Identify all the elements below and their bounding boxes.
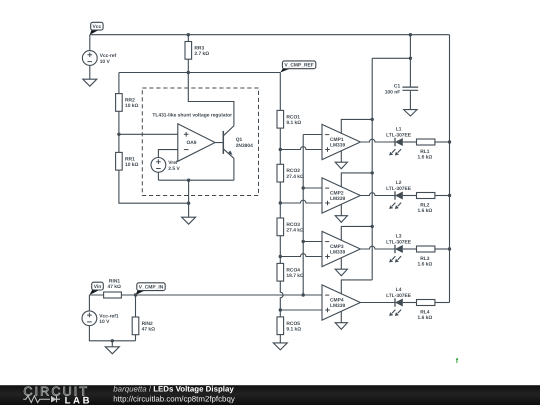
wire CMP4 V+ pin <box>341 280 372 294</box>
resistor RCO3 <box>277 218 304 236</box>
ground <box>335 269 347 276</box>
svg-text:RR1: RR1 <box>125 156 135 162</box>
op-amp CMP3 comparator <box>322 231 360 266</box>
ground <box>335 162 347 169</box>
wire RL2 to rail <box>435 195 450 197</box>
resistor RR1 <box>116 152 139 170</box>
resistor RIN1 <box>89 279 135 299</box>
svg-text:LM339: LM339 <box>330 250 346 256</box>
svg-text:L4: L4 <box>396 287 402 293</box>
svg-text:2N3904: 2N3904 <box>236 143 253 149</box>
svg-text:2.7 kΩ: 2.7 kΩ <box>194 51 209 57</box>
svg-text:9.1 kΩ: 9.1 kΩ <box>286 327 301 333</box>
svg-text:1.6 kΩ: 1.6 kΩ <box>417 315 432 321</box>
wire CMP4 output <box>360 302 395 304</box>
ground <box>335 216 347 223</box>
svg-text:V_CMP_IN: V_CMP_IN <box>139 284 164 290</box>
wire Q1 collector <box>188 73 234 126</box>
svg-text:RIN2: RIN2 <box>142 321 153 327</box>
ground <box>105 347 119 354</box>
LED L4 LTL-307EE <box>386 287 412 316</box>
svg-text:LTL-307EE: LTL-307EE <box>386 239 412 245</box>
resistor RR2 <box>116 94 139 112</box>
LED L3 LTL-307EE <box>386 234 412 263</box>
svg-text:L1: L1 <box>396 127 402 133</box>
svg-text:RL4: RL4 <box>420 310 430 316</box>
op-amp CMP2 comparator <box>322 178 360 213</box>
svg-text:LTL-307EE: LTL-307EE <box>386 293 412 299</box>
wire RL4 to rail <box>435 302 450 304</box>
resistor RR2 <box>118 73 120 153</box>
capacitor C1 <box>385 35 419 110</box>
wire tap2 to CMP2 + input <box>280 200 322 203</box>
ground <box>404 110 417 116</box>
wire RL1 to rail <box>435 141 450 143</box>
svg-text:C1: C1 <box>394 83 401 89</box>
LED L2 LTL-307EE <box>386 180 412 209</box>
ground <box>273 343 287 350</box>
svg-text:LM339: LM339 <box>330 303 346 309</box>
svg-text:CMP4: CMP4 <box>330 297 344 303</box>
ground <box>182 217 196 224</box>
svg-text:LM339: LM339 <box>330 143 346 149</box>
wire CMP1 V- pin <box>340 151 342 162</box>
wire CMP2 output <box>360 193 395 196</box>
wire Q1 emitter <box>233 158 235 180</box>
svg-text:RL3: RL3 <box>420 256 430 262</box>
resistor RL3 <box>417 246 435 268</box>
svg-text:Vref: Vref <box>168 160 178 166</box>
svg-text:L3: L3 <box>396 234 402 240</box>
wire CMP3 V+ pin <box>341 226 372 240</box>
node Vcc flag <box>90 22 103 34</box>
svg-text:OA9: OA9 <box>186 140 196 146</box>
wire V_CMP_REF horizontal <box>119 72 280 74</box>
wire LED to RL3 <box>403 248 417 250</box>
wire tap1 to CMP1 + input <box>280 147 322 150</box>
LED L1 LTL-307EE <box>386 127 412 156</box>
svg-text:27.4 kΩ: 27.4 kΩ <box>286 174 304 180</box>
svg-text:Vin: Vin <box>94 284 102 290</box>
wire V_CMP_IN horizontal <box>136 294 323 296</box>
resistor RCO4 <box>277 263 304 281</box>
voltage source Vref <box>151 158 180 173</box>
wire LED to RL2 <box>403 195 417 197</box>
wire chain with hop over V_CMP_IN <box>280 281 283 317</box>
svg-text:2.5 V: 2.5 V <box>168 166 180 172</box>
wire CMP3 V- pin <box>340 258 342 269</box>
svg-text:Vcc-ref: Vcc-ref <box>100 53 117 59</box>
svg-text:47 kΩ: 47 kΩ <box>107 284 121 290</box>
svg-text:RCO1: RCO1 <box>286 114 300 120</box>
svg-text:Vcc-ref1: Vcc-ref1 <box>99 314 119 320</box>
svg-text:100 nF: 100 nF <box>385 89 401 95</box>
TL431 dashed box <box>142 88 258 196</box>
svg-text:L2: L2 <box>396 180 402 186</box>
svg-text:TL431-like shunt voltage regul: TL431-like shunt voltage regulator <box>152 113 232 119</box>
svg-text:LM339: LM339 <box>330 196 346 202</box>
wire LED to RL1 <box>403 141 417 143</box>
wire CMP4 V- pin <box>340 311 342 323</box>
wire OA9 + input <box>119 133 178 135</box>
node V_CMP_REF flag <box>280 61 316 73</box>
op-amp CMP1 comparator <box>322 124 360 159</box>
ground <box>83 79 97 86</box>
svg-text:barquetta / LEDs Voltage Displ: barquetta / LEDs Voltage Display <box>113 384 234 393</box>
node V_CMP_IN flag <box>136 283 166 295</box>
resistor RIN2 <box>132 317 155 335</box>
wire to input ground <box>111 341 113 347</box>
svg-text:1.6 kΩ: 1.6 kΩ <box>417 208 432 214</box>
voltage source Vcc-ref <box>89 35 91 51</box>
resistor RCO2 <box>277 164 304 182</box>
wire right Vcc rail <box>449 35 451 303</box>
wire OA9 - input to Vref <box>158 150 177 158</box>
voltage source Vcc-ref1 <box>88 295 90 311</box>
op-amp CMP4 comparator <box>322 285 360 320</box>
wire Vcc top rail <box>90 34 450 36</box>
svg-text:CMP1: CMP1 <box>330 137 344 143</box>
svg-text:RCO5: RCO5 <box>286 321 300 327</box>
svg-text:9.1 kΩ: 9.1 kΩ <box>286 120 301 126</box>
svg-text:1.6 kΩ: 1.6 kΩ <box>417 155 432 161</box>
footer bar <box>0 384 540 405</box>
resistor RCO5 <box>277 317 301 335</box>
wire RL3 to rail <box>435 248 450 250</box>
svg-text:10 V: 10 V <box>100 59 111 65</box>
svg-text:http://circuitlab.com/cp8tm2fp: http://circuitlab.com/cp8tm2fpfcbqy <box>113 394 235 403</box>
svg-text:RCO2: RCO2 <box>286 168 300 174</box>
svg-text:18.7 kΩ: 18.7 kΩ <box>286 273 304 279</box>
wire CMP1 output <box>360 139 395 142</box>
wire bus V_CMP_IN vertical <box>302 135 304 296</box>
ground <box>335 323 347 330</box>
svg-text:10 kΩ: 10 kΩ <box>125 162 139 168</box>
svg-text:RR3: RR3 <box>194 46 204 52</box>
wire regulator bottom <box>158 179 234 181</box>
svg-text:47 kΩ: 47 kΩ <box>142 327 156 333</box>
wire LED to RL4 <box>403 302 417 304</box>
transistor Q1 <box>215 126 253 159</box>
svg-text:RCO3: RCO3 <box>286 222 300 228</box>
svg-text:LTL-307EE: LTL-307EE <box>386 132 412 138</box>
wire CMP2 V- pin <box>340 204 342 216</box>
resistor RIN2 <box>135 295 137 341</box>
svg-text:RL1: RL1 <box>420 149 430 155</box>
resistor RL2 <box>417 193 435 215</box>
svg-text:CMP3: CMP3 <box>330 244 344 250</box>
wire stubs to - inputs <box>303 135 322 242</box>
svg-text:RL2: RL2 <box>420 203 430 209</box>
svg-text:Q1: Q1 <box>236 137 243 143</box>
wire tap4 to CMP4 + input <box>280 309 322 311</box>
wire CMP2 V+ pin <box>341 173 372 187</box>
resistor RR3 <box>187 35 189 73</box>
wire tap3 to CMP3 + input <box>280 254 322 257</box>
resistor RCO1 <box>277 110 301 128</box>
svg-text:10 V: 10 V <box>99 319 110 325</box>
wire to regulator ground <box>188 180 190 217</box>
svg-text:Vcc: Vcc <box>93 24 102 30</box>
wire CMP3 output <box>360 246 395 249</box>
svg-text:1.6 kΩ: 1.6 kΩ <box>417 262 432 268</box>
wire reference divider rail <box>279 73 281 111</box>
wire comparator V+ rail <box>372 58 410 280</box>
resistor RL1 <box>417 139 435 161</box>
svg-text:RIN1: RIN1 <box>109 279 120 285</box>
svg-text:V_CMP_REF: V_CMP_REF <box>284 63 313 69</box>
wire CMP1 V+ pin <box>341 119 372 133</box>
op-amp OA9 <box>178 124 215 162</box>
svg-text:RR2: RR2 <box>125 98 135 104</box>
svg-text:LAB: LAB <box>65 395 93 405</box>
resistor RR3 <box>185 42 209 60</box>
svg-text:RCO4: RCO4 <box>286 267 300 273</box>
svg-text:LTL-307EE: LTL-307EE <box>386 186 412 192</box>
resistor RL4 <box>417 300 435 322</box>
svg-text:27.4 kΩ: 27.4 kΩ <box>286 228 304 234</box>
svg-text:10 kΩ: 10 kΩ <box>125 103 139 109</box>
svg-text:CMP2: CMP2 <box>330 190 344 196</box>
node Vin flag <box>89 282 103 295</box>
